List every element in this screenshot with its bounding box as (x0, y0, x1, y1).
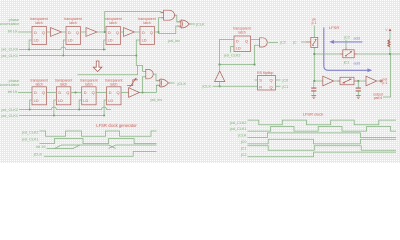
svg-text:latch: latch (60, 82, 67, 86)
svg-text:latch: latch (143, 21, 150, 25)
svg-text:S: S (259, 78, 262, 83)
svg-text:LD: LD (236, 46, 241, 51)
svg-text:jCLK: jCLK (237, 134, 247, 138)
svg-text:latch: latch (238, 30, 245, 34)
svg-text:Q: Q (270, 78, 273, 83)
svg-text:jxd_inv: jxd_inv (150, 98, 163, 102)
svg-text:jC1: jC1 (343, 61, 350, 65)
svg-text:LFSR clock: LFSR clock (303, 112, 323, 117)
svg-text:D: D (236, 38, 239, 43)
svg-text:latch: latch (109, 21, 116, 25)
svg-text:jC0: jC0 (282, 79, 289, 83)
svg-text:pad 6: pad 6 (374, 96, 383, 100)
svg-text:p 1: p 1 (312, 21, 317, 25)
svg-text:latch: latch (36, 82, 43, 86)
svg-text:bit 19: bit 19 (36, 145, 45, 149)
svg-text:latch: latch (85, 82, 92, 86)
svg-text:add: add (354, 36, 360, 40)
svg-text:R: R (259, 85, 262, 90)
svg-text:jC0: jC0 (240, 140, 247, 144)
svg-text:jC2: jC2 (240, 153, 247, 157)
svg-text:jxd_CLK1: jxd_CLK1 (229, 127, 246, 131)
svg-text:accumulator: accumulator (0, 83, 20, 87)
svg-text:jxd_CLK2: jxd_CLK2 (1, 108, 18, 112)
svg-text:LFSR clock generator: LFSR clock generator (96, 123, 137, 128)
svg-text:Q: Q (270, 85, 273, 90)
svg-text:LFSR: LFSR (329, 25, 339, 30)
svg-text:jCLK: jCLK (33, 152, 43, 156)
svg-text:jxd_inv: jxd_inv (167, 39, 180, 43)
svg-text:latch: latch (35, 21, 42, 25)
svg-text:bit 19: bit 19 (8, 29, 17, 33)
svg-text:jxd_CLK1: jxd_CLK1 (1, 114, 18, 118)
svg-text:jC: jC (292, 40, 297, 44)
svg-text:add: add (354, 61, 360, 65)
svg-text:jC2: jC2 (343, 36, 350, 40)
svg-text:jxd_CLK2: jxd_CLK2 (223, 53, 240, 57)
svg-text:p 1: p 1 (383, 81, 388, 85)
svg-text:jxd_CLK1: jxd_CLK1 (1, 54, 18, 58)
svg-text:accumulator: accumulator (0, 22, 20, 26)
svg-text:latch: latch (69, 21, 76, 25)
svg-text:jCLK: jCLK (177, 81, 187, 86)
svg-text:jCLK: jCLK (202, 83, 212, 88)
svg-text:jC2: jC2 (279, 40, 286, 44)
svg-text:jxd_CLK2: jxd_CLK2 (21, 130, 38, 134)
svg-text:latch: latch (110, 82, 117, 86)
svg-text:jC1: jC1 (282, 85, 289, 89)
svg-text:jxd_CLK1: jxd_CLK1 (21, 138, 38, 142)
svg-text:bit 19: bit 19 (8, 90, 17, 94)
svg-text:jxd_CLK2: jxd_CLK2 (229, 121, 246, 125)
svg-text:jC1: jC1 (240, 146, 247, 150)
svg-text:jCLK: jCLK (195, 21, 205, 26)
svg-text:jxd_CLK0: jxd_CLK0 (1, 48, 18, 52)
svg-text:RS flipflop: RS flipflop (257, 71, 273, 75)
svg-text:Q: Q (245, 38, 248, 43)
